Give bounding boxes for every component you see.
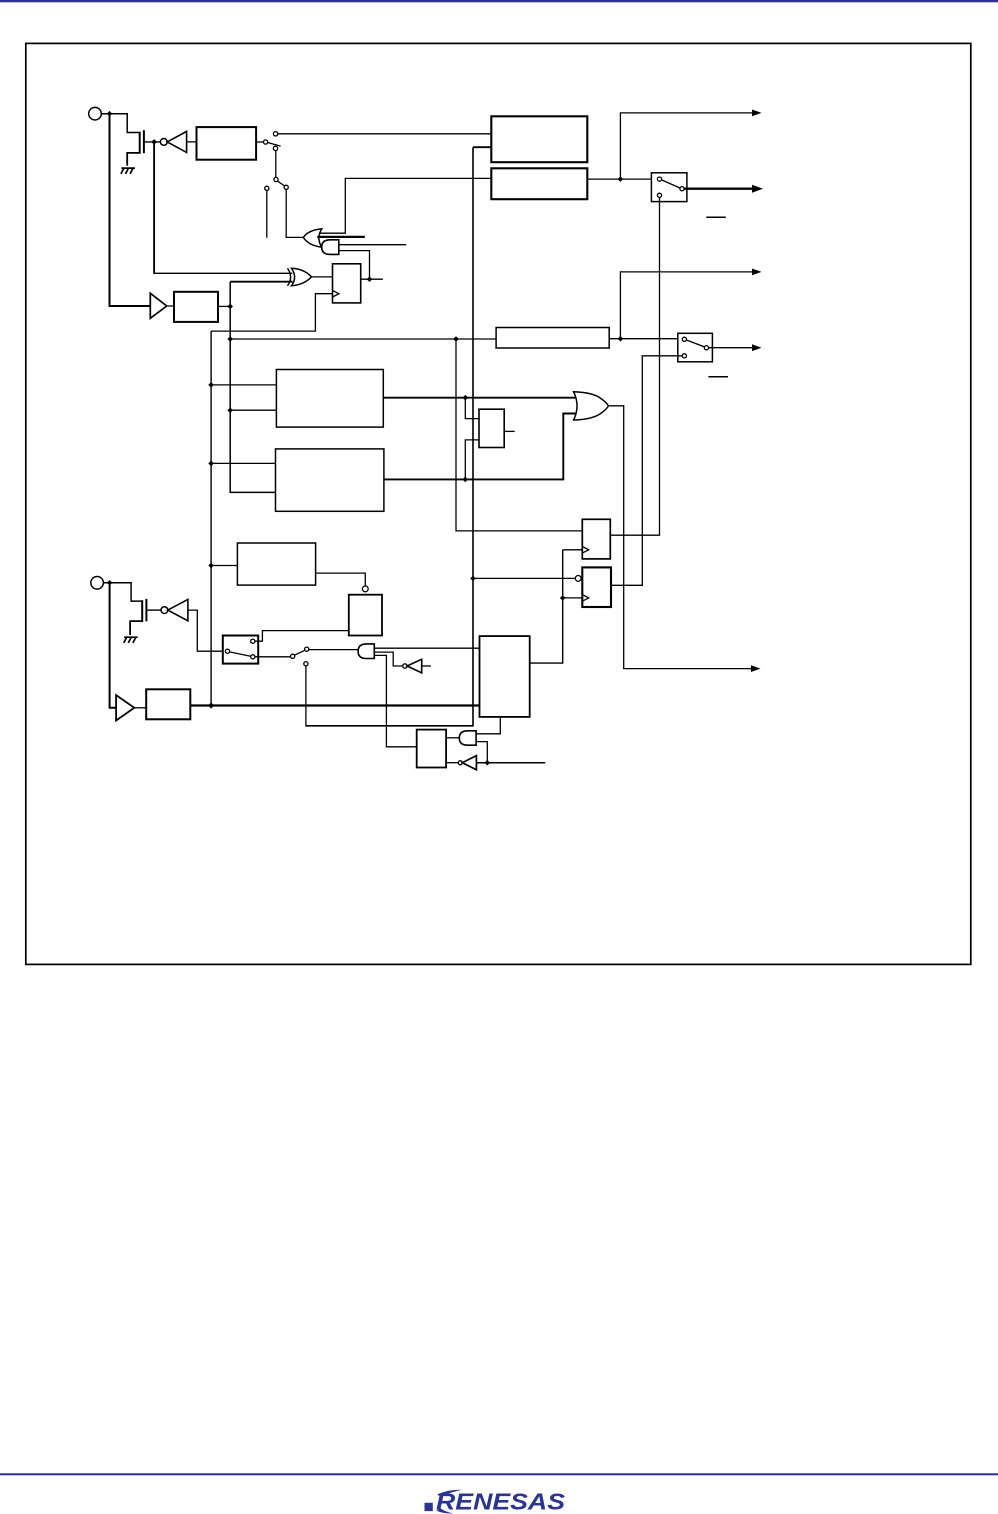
switch SW1a upper contact	[273, 132, 277, 136]
wire pin P1 to transistor Q1 drain	[101, 114, 139, 133]
wire phi net vertical (left distribution)	[210, 331, 212, 705]
wire block I upper-left line to AND G5 input1	[374, 647, 479, 649]
wire SW1b left contact stub (to hidden label)	[266, 190, 268, 237]
wire block E output to switch SW3	[609, 338, 682, 340]
wire FF0 output stub (hidden label)	[361, 278, 383, 280]
node: gate net junction	[151, 139, 157, 145]
wire SW3 output to arrow 4	[709, 347, 753, 349]
block D (baud rate generator lower)	[276, 449, 384, 511]
Renesas logo swoosh	[437, 1490, 462, 1497]
overbar label mark (hidden TMIOB)	[708, 376, 728, 378]
wire SW2 lower contact down to FF1 output	[610, 197, 659, 535]
OR gate G4 (points right)	[574, 392, 609, 420]
wire G2 upper input (external, hidden label)	[339, 244, 406, 246]
wire G5 input3 down to block J	[374, 655, 416, 746]
block A (timer control upper)	[491, 116, 587, 162]
wire rx net vertical	[230, 282, 275, 493]
inverter U1 triangle (points left)	[167, 131, 186, 152]
SW4 top-right contact	[251, 639, 255, 643]
wire U1 to block B1	[187, 141, 197, 143]
wire SW4 top contact to block H	[255, 631, 349, 642]
node: phi junction at x211	[208, 702, 214, 708]
node: FF0 output junction	[367, 276, 373, 282]
wire block C output to OR gate G4	[383, 397, 576, 399]
switch SW4 box	[223, 636, 258, 664]
inverter bubble U2	[161, 607, 168, 614]
transistor Q2 gate bar	[145, 599, 147, 621]
SW4 arm	[230, 652, 251, 656]
clock vertical from block I output	[530, 550, 563, 663]
wire block J to inverter U4 output	[446, 762, 458, 764]
wire block F output to block H bubble	[316, 573, 366, 586]
wire XOR G3 lower input	[230, 281, 292, 283]
block F (noise canceler)	[237, 543, 315, 585]
SW2 lower-left contact	[657, 193, 661, 197]
transistor Q1 source wire	[127, 153, 140, 166]
wire SW1a lower contact to SW1b pivot	[275, 151, 277, 178]
wire phi to block D input1	[211, 462, 275, 464]
block C (baud rate generator upper)	[276, 370, 383, 428]
inverter U4 bubble	[458, 761, 462, 765]
wire pin P2 to transistor Q2 drain	[103, 583, 141, 601]
node: pin P1 junction	[107, 111, 113, 117]
svg-text:RENESAS: RENESAS	[436, 1489, 565, 1514]
node: junction B output branch	[618, 176, 624, 182]
wire SW1a upper contact to block A	[278, 133, 492, 135]
inverter U3 bubble	[403, 664, 407, 668]
wire SW4 bottom contact to inline switch SW5	[255, 656, 291, 658]
inverter bubble U1	[160, 139, 167, 146]
wire branch up to arrow output 1	[620, 113, 752, 179]
input pin P2 (lower input)	[91, 577, 104, 590]
wire block B output to switch SW2	[587, 178, 657, 180]
arrowhead output 5	[751, 665, 761, 672]
node: phi junction to block D	[208, 461, 214, 467]
figure border frame	[26, 43, 971, 964]
flip-flop FF2	[582, 567, 611, 607]
wire G5 input2 from inverter U3	[374, 652, 402, 666]
wire tap down to box K upper input	[465, 398, 479, 419]
inverter U4 triangle (points left)	[462, 756, 476, 770]
wire SW5 alternate contact down to x473 net	[305, 666, 307, 727]
wire block D output across	[384, 414, 577, 480]
wire FF2 clock	[563, 597, 583, 599]
node: junction x473 to FF2	[470, 576, 476, 582]
node: phi junction to block C	[208, 382, 214, 388]
AND gate G6 (points left)	[459, 731, 476, 745]
switch SW1b arm	[277, 181, 284, 186]
node: clock junction to FF2	[560, 595, 566, 601]
arrowhead output 3	[752, 269, 762, 276]
transistor Q1 channel bar	[139, 132, 141, 154]
arrowhead output 1	[752, 110, 762, 117]
wire block A lower-left stub to x473 net	[473, 146, 491, 148]
transistor Q2 channel bar	[141, 600, 143, 622]
wire B1 output to switch SW1a	[256, 141, 263, 143]
wire phi thick line from box B4 to block I	[190, 704, 479, 706]
FF0 clock triangle	[333, 290, 339, 297]
wire SW3 lower input from FF2	[611, 356, 682, 586]
flip-flop FF0	[333, 264, 361, 303]
Renesas logo square dot	[425, 1503, 433, 1511]
wire y339 net from rx vertical to block E	[230, 338, 496, 340]
SW3 right contact	[704, 346, 708, 350]
inverter U2 triangle (points left)	[168, 599, 188, 620]
node: junction E output branch	[618, 336, 624, 342]
wire x473 long vertical net	[306, 147, 473, 726]
wire pin P2 down to buffer A2	[110, 585, 117, 708]
overbar label mark (hidden TMIOA)	[706, 216, 726, 218]
wire SW2 output to arrow 2 (thick)	[684, 187, 752, 189]
OR gate G1 (points left)	[303, 229, 322, 247]
block B (timer control lower)	[491, 168, 587, 199]
wire block B left stub to OR gate G1 upper input	[319, 178, 491, 233]
node: phi junction to block F	[208, 563, 214, 569]
wire FF1 clock from clock vertical	[563, 549, 583, 551]
SW3 lower-left contact	[682, 354, 686, 358]
transistor Q2 source wire	[130, 621, 142, 635]
switch SW1a input contact	[264, 140, 268, 144]
wire U2 output down to switch SW4	[188, 610, 226, 651]
FF1 clock triangle	[582, 547, 588, 554]
wire U4 input line (hidden label)	[476, 762, 545, 764]
wire FF0 clock from phi net	[211, 294, 332, 331]
node: rx net junction at B2 output	[227, 304, 233, 310]
wire G4 output to TMO arrow	[609, 406, 752, 669]
switch SW1b right contact	[284, 185, 288, 189]
node: junction y339/x456 branch	[453, 336, 459, 342]
wire G6 input2 down to inverter line	[476, 742, 487, 763]
top blue header bar	[0, 0, 998, 2]
buffer A2 (points right)	[116, 695, 134, 720]
SW2 upper-left contact	[657, 177, 661, 181]
block I (edge detector)	[480, 636, 530, 717]
node: junction on y339 at x230	[227, 336, 233, 342]
wire block I bottom stub to AND G6 input1	[476, 717, 500, 734]
box K (1/2 divider)	[479, 409, 504, 447]
box B4 (delay)	[146, 689, 190, 719]
wire G2 lower input from FF0 output	[339, 251, 370, 280]
wire U3 input stub (hidden label)	[422, 665, 431, 667]
wire Q1 gate to inverter	[144, 141, 160, 143]
wire external clock line into G1 (thick, hidden label)	[317, 236, 365, 238]
block E (comparator long)	[496, 328, 609, 349]
arrowhead output 2	[752, 185, 763, 193]
wire tap up to box K lower input	[465, 440, 479, 480]
switch SW5 left contact	[291, 654, 295, 658]
switch SW2 box	[651, 173, 687, 202]
SW4 bottom-right contact	[251, 655, 255, 659]
wire SW5 right contact to AND G5 output	[309, 649, 358, 651]
switch SW5 alternate contact	[304, 662, 308, 666]
node: pin P2 junction	[107, 580, 113, 586]
wire G3 output to FF0	[312, 276, 333, 278]
box K output stub (hidden label)	[504, 430, 515, 432]
ground GND2	[124, 637, 138, 643]
wire phi to block F input	[211, 565, 237, 567]
wire Q2 gate to inverter U2	[146, 609, 160, 611]
wire B2 output to rx net	[218, 305, 230, 307]
node: junction G6 input / U4 input line	[485, 760, 491, 766]
FF2 input bubble	[575, 576, 581, 582]
block B1 (input control)	[197, 127, 257, 160]
wire G6 output to block J	[446, 737, 459, 739]
wire SW1b right contact to OR gate G1 output	[286, 189, 303, 237]
wire x456 vertical down to FF1 D input	[456, 339, 582, 531]
block H input bubble	[362, 586, 368, 592]
SW4 left contact	[225, 649, 229, 653]
XOR gate G3 (points right)	[288, 268, 291, 286]
switch SW1a lower contact	[273, 146, 277, 150]
node: junction C output / divider tap	[463, 395, 469, 401]
buffer A1 (points right)	[150, 293, 166, 318]
block B2 (delay)	[174, 292, 218, 322]
wire phi to block C input1	[211, 384, 276, 386]
transistor Q1 gate bar	[143, 130, 145, 153]
FF2 clock triangle	[582, 595, 588, 602]
block H	[349, 595, 382, 636]
wire rx to block C input2	[230, 409, 276, 411]
node: rx junction to block C	[227, 407, 233, 413]
ground GND1	[121, 168, 135, 174]
AND gate G2 (points left)	[322, 240, 339, 255]
bottom blue rule	[0, 1473, 998, 1475]
SW3 upper-left contact	[682, 337, 686, 341]
switch SW5 arm	[295, 650, 305, 655]
wire A1 to B2	[167, 305, 174, 307]
arrowhead output 4	[752, 344, 762, 351]
wire XOR G3 upper input from gate net	[153, 142, 155, 273]
switch SW1a arm	[268, 143, 281, 147]
wire A2 to box B4	[134, 707, 146, 709]
SW2 arm	[662, 180, 681, 188]
block J (control register bit)	[417, 730, 446, 768]
wire FF2 D input from x473 net	[473, 577, 575, 579]
input pin P1 (top clock input)	[89, 107, 102, 120]
wire pin P1 down to buffer A1	[110, 116, 151, 306]
switch SW1b left contact	[265, 186, 269, 190]
SW2 right contact	[680, 187, 684, 191]
flip-flop FF1	[582, 519, 610, 559]
switch SW3 box	[678, 333, 713, 362]
switch SW1b pivot contact	[274, 177, 278, 181]
SW3 arm	[686, 340, 704, 347]
AND gate G5 (points left)	[358, 644, 374, 659]
switch SW5 right contact	[305, 647, 309, 651]
wire branch up to arrow output 3	[620, 272, 752, 339]
inverter U3 triangle (points left)	[407, 659, 422, 673]
node: junction D output / divider tap	[463, 477, 469, 483]
